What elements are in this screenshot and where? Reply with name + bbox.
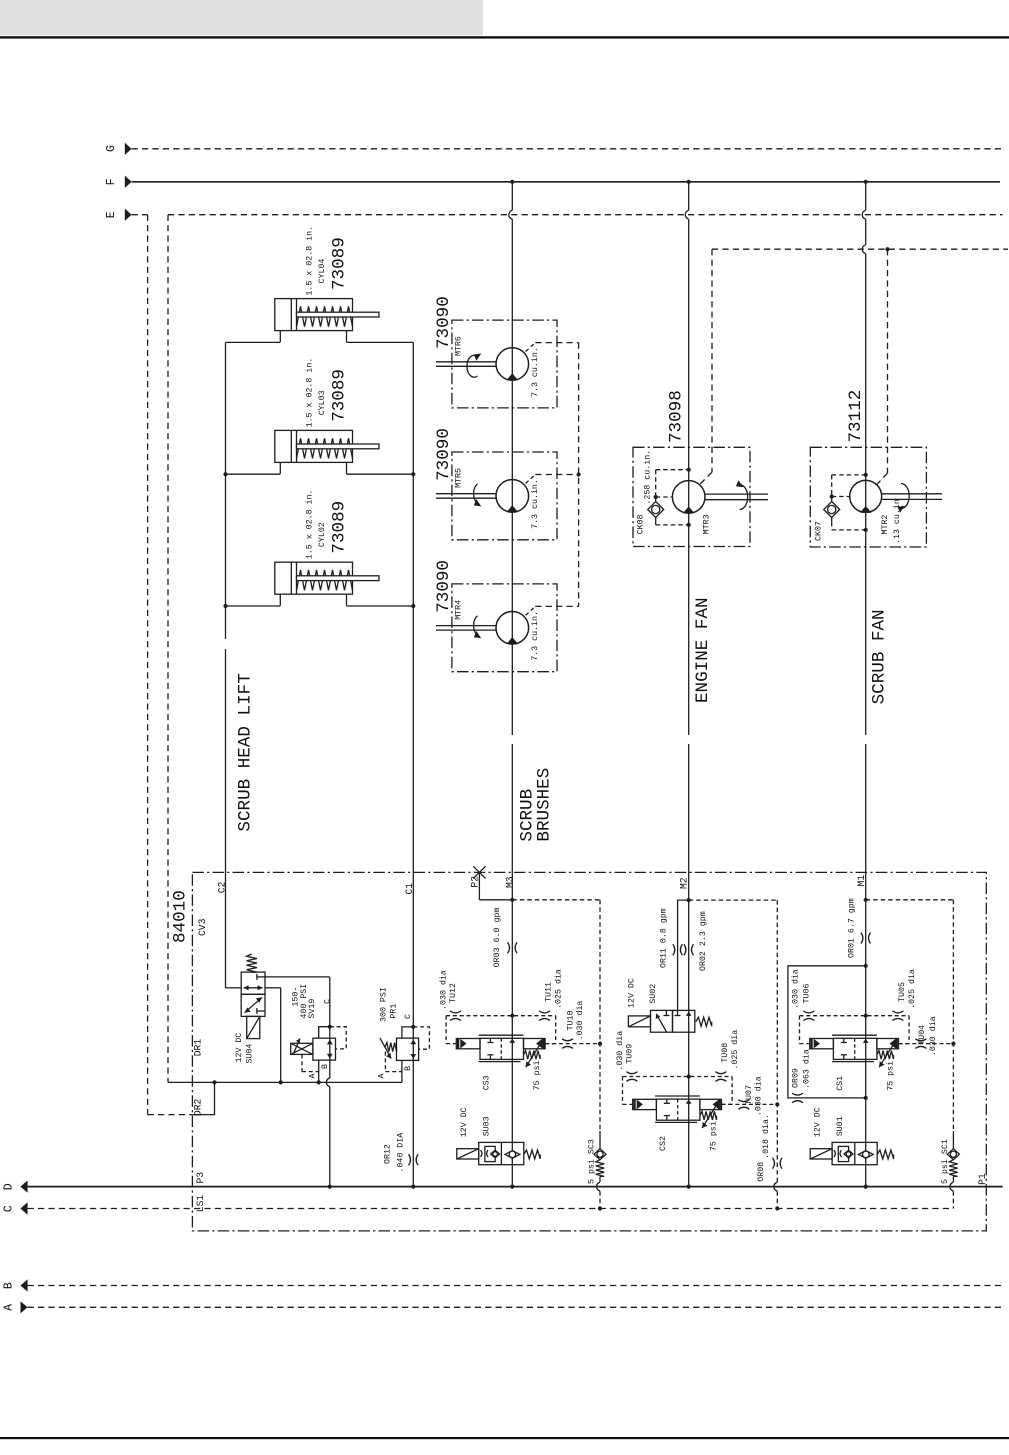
orifice OR02 bbox=[684, 944, 694, 955]
node A bbox=[3, 1301, 28, 1313]
svg-text:.030 dia: .030 dia bbox=[791, 969, 801, 1009]
svg-text:SU04: SU04 bbox=[246, 1044, 255, 1064]
cylinder CYL03 73089 bbox=[275, 430, 379, 474]
svg-text:.030 dia: .030 dia bbox=[615, 1031, 625, 1071]
svg-text:SCRUB HEAD LIFT: SCRUB HEAD LIFT bbox=[235, 673, 255, 831]
svg-text:M1: M1 bbox=[856, 875, 867, 887]
svg-text:12V DC: 12V DC bbox=[235, 1033, 244, 1063]
label TU09 bbox=[615, 1031, 635, 1071]
label OR08 bbox=[757, 1114, 771, 1182]
port label DR2 bbox=[192, 1098, 203, 1116]
svg-text:7.3 cu.in.: 7.3 cu.in. bbox=[530, 347, 540, 397]
label MTR4 bbox=[434, 560, 540, 661]
wire M1 drain branch dashed bbox=[866, 900, 956, 1131]
node D (pressure supply P3) bbox=[3, 1180, 28, 1192]
svg-text:CYL04: CYL04 bbox=[318, 259, 327, 284]
svg-text:OR02 2.3 gpm: OR02 2.3 gpm bbox=[699, 911, 708, 971]
motor MTR2 73112 bbox=[810, 447, 942, 547]
label OR09 bbox=[792, 1049, 812, 1089]
svg-text:OR03 6.0 gpm: OR03 6.0 gpm bbox=[493, 908, 502, 968]
header rule bbox=[0, 36, 1009, 38]
svg-text:D: D bbox=[3, 1183, 16, 1190]
wire M1 scrub fan line bbox=[862, 182, 865, 1187]
label PR1 ports bbox=[377, 1014, 413, 1079]
svg-text:TU07: TU07 bbox=[745, 1085, 754, 1105]
label TU10 bbox=[566, 1001, 585, 1041]
label SCRUB HEAD LIFT bbox=[235, 673, 255, 831]
motor MTR6 73090 bbox=[436, 320, 557, 408]
solenoid valve SU03 bbox=[457, 1142, 540, 1164]
svg-text:7.3 cu.in.: 7.3 cu.in. bbox=[530, 611, 540, 661]
svg-text:PR1: PR1 bbox=[390, 1004, 399, 1019]
wire D P3 supply bus bbox=[28, 1185, 1003, 1189]
label SV19 bbox=[292, 984, 317, 1019]
svg-text:MTR4: MTR4 bbox=[455, 600, 464, 620]
label ENGINE FAN bbox=[693, 597, 713, 703]
svg-text:.030 dia: .030 dia bbox=[439, 970, 449, 1010]
svg-text:12V DC: 12V DC bbox=[814, 1107, 823, 1137]
wire C LS1 bus dashed bbox=[28, 1208, 954, 1210]
label TU04 bbox=[918, 1016, 938, 1056]
wire cylinder cross line top bbox=[226, 341, 414, 343]
junction F to M2 bbox=[687, 180, 691, 184]
label SC3 bbox=[587, 1139, 597, 1184]
svg-text:5 psi SC3: 5 psi SC3 bbox=[587, 1139, 597, 1184]
screen SC1 bbox=[947, 1131, 959, 1209]
label TU12 bbox=[439, 970, 459, 1010]
svg-text:P3: P3 bbox=[195, 1172, 206, 1184]
svg-text:.030 dia: .030 dia bbox=[754, 1076, 764, 1116]
svg-text:DR1: DR1 bbox=[192, 1039, 203, 1057]
svg-text:73089: 73089 bbox=[330, 237, 350, 290]
svg-text:7.3 cu.in.: 7.3 cu.in. bbox=[530, 479, 540, 529]
motor MTR3 73098 bbox=[633, 447, 768, 546]
svg-text:C2: C2 bbox=[216, 881, 227, 893]
port label M2 bbox=[679, 877, 690, 889]
port label P3 bbox=[195, 1172, 206, 1184]
label CS1 bbox=[836, 1061, 896, 1091]
port label DR1 bbox=[192, 1039, 203, 1057]
svg-text:73089: 73089 bbox=[330, 369, 350, 422]
svg-text:SU02: SU02 bbox=[649, 984, 658, 1004]
wire A dashed bbox=[28, 1306, 1003, 1308]
svg-text:CK08: CK08 bbox=[637, 514, 646, 534]
svg-text:OR11 0.8 gpm: OR11 0.8 gpm bbox=[660, 908, 669, 968]
orifice OR09 bypass loop bbox=[788, 964, 868, 1103]
svg-text:MTR2: MTR2 bbox=[881, 515, 890, 535]
label TU11 bbox=[545, 969, 564, 1009]
label OR11 OR02 bbox=[660, 908, 709, 971]
svg-text:OR09: OR09 bbox=[792, 1068, 801, 1088]
svg-text:73090: 73090 bbox=[434, 560, 454, 613]
wire brush motor drain manifold bbox=[577, 343, 581, 607]
wire F solid line bbox=[132, 181, 1000, 183]
svg-text:CS2: CS2 bbox=[659, 1136, 668, 1151]
svg-text:1.5 x 02.8 in.: 1.5 x 02.8 in. bbox=[304, 226, 314, 296]
svg-text:OR01 6.7 gpm: OR01 6.7 gpm bbox=[848, 898, 857, 958]
orifice OR03 bbox=[508, 942, 518, 953]
flow control valve CS1 bbox=[800, 1011, 954, 1067]
junction OR08 to LS1 bbox=[775, 1206, 779, 1210]
label SU01 bbox=[814, 1107, 845, 1137]
check valve CK08 bbox=[648, 468, 691, 527]
solenoid valve SU02 bbox=[628, 1010, 711, 1032]
svg-text:.025 dia: .025 dia bbox=[554, 969, 564, 1009]
svg-text:TU08: TU08 bbox=[721, 1043, 730, 1063]
manifold 84010 boundary bbox=[192, 872, 986, 1231]
wire C2 to SU04 bbox=[226, 987, 242, 989]
svg-text:TU12: TU12 bbox=[449, 983, 458, 1003]
svg-text:BRUSHES: BRUSHES bbox=[534, 768, 554, 842]
svg-text:TU04: TU04 bbox=[918, 1025, 927, 1045]
label CS3 bbox=[483, 1060, 543, 1090]
svg-text:SU01: SU01 bbox=[836, 1116, 845, 1136]
svg-text:TU10: TU10 bbox=[566, 1011, 575, 1031]
svg-text:.040 DIA: .040 DIA bbox=[396, 1133, 405, 1173]
svg-text:CS3: CS3 bbox=[483, 1075, 492, 1090]
relief valve PR1 bbox=[380, 1025, 430, 1083]
wire cylinder right bus C1 bbox=[412, 342, 414, 1186]
svg-text:TU06: TU06 bbox=[803, 984, 812, 1004]
svg-text:5 psi SC1: 5 psi SC1 bbox=[940, 1139, 950, 1184]
port label P1 bbox=[977, 1173, 988, 1185]
svg-text:LS1: LS1 bbox=[195, 1195, 206, 1213]
cylinder CYL02 73089 bbox=[275, 562, 379, 606]
label SU02 bbox=[628, 978, 658, 1008]
svg-text:MTR6: MTR6 bbox=[455, 336, 464, 356]
wire M2 drain branch dashed bbox=[689, 900, 780, 1208]
wire B dashed bbox=[28, 1285, 1003, 1287]
svg-text:G: G bbox=[105, 145, 118, 152]
svg-text:B: B bbox=[404, 1066, 413, 1071]
port label C2 bbox=[216, 881, 227, 893]
wire M2 engine fan line bbox=[685, 182, 688, 1187]
svg-text:CYL03: CYL03 bbox=[318, 390, 327, 415]
label TU05 bbox=[898, 969, 917, 1009]
svg-text:TU05: TU05 bbox=[898, 982, 907, 1002]
label TU07 bbox=[745, 1076, 764, 1116]
wire drain DR2 dashed from E bbox=[148, 215, 193, 1115]
svg-text:B: B bbox=[321, 1064, 330, 1069]
node E (drain header) bbox=[105, 209, 132, 221]
port P2 plug bbox=[473, 866, 512, 900]
junction F to M3 bbox=[510, 180, 514, 184]
wire MTR6 case drain bbox=[526, 343, 579, 352]
svg-text:MTR3: MTR3 bbox=[703, 514, 712, 534]
svg-text:12V DC: 12V DC bbox=[460, 1107, 469, 1137]
svg-text:CYL02: CYL02 bbox=[318, 522, 327, 547]
orifice OR11 bbox=[673, 944, 683, 955]
svg-text:B: B bbox=[3, 1282, 16, 1289]
svg-text:73112: 73112 bbox=[846, 390, 866, 443]
label OR01 bbox=[848, 898, 857, 958]
label SCRUB FAN bbox=[869, 609, 889, 704]
wire G dashed line bbox=[132, 148, 1004, 150]
label SCRUB BRUSHES bbox=[518, 768, 555, 842]
svg-text:E: E bbox=[105, 211, 118, 218]
port label M3 bbox=[504, 876, 515, 888]
svg-text:CS1: CS1 bbox=[836, 1076, 845, 1091]
svg-text:84010: 84010 bbox=[171, 890, 191, 943]
label CS2 bbox=[659, 1121, 719, 1151]
wire M3 drain branch dashed bbox=[512, 900, 602, 1131]
proportional valve SV19 bbox=[291, 1025, 347, 1083]
node M3 branch bbox=[510, 898, 514, 902]
wire fan case drain header bbox=[712, 247, 1008, 251]
junction F to M1 bbox=[864, 180, 868, 184]
svg-text:M2: M2 bbox=[679, 877, 690, 889]
svg-text:C: C bbox=[3, 1205, 16, 1212]
svg-text:.13 cu.in: .13 cu.in bbox=[892, 499, 902, 544]
wire MTR5 case drain bbox=[526, 475, 579, 484]
label OR12 bbox=[384, 1133, 406, 1173]
svg-text:1.5 x 02.8 in.: 1.5 x 02.8 in. bbox=[304, 489, 314, 559]
node M2 branch bbox=[687, 898, 691, 902]
svg-text:.018 dia.: .018 dia. bbox=[761, 1114, 771, 1159]
svg-text:SV19: SV19 bbox=[308, 999, 317, 1019]
wire MTR2 case drain bbox=[877, 249, 887, 484]
check valve CK07 bbox=[824, 473, 868, 532]
svg-text:MTR5: MTR5 bbox=[455, 468, 464, 488]
header gray bar bbox=[0, 0, 483, 35]
svg-text:.258 cu.in.: .258 cu.in. bbox=[643, 450, 653, 505]
svg-text:C: C bbox=[404, 1014, 413, 1019]
svg-text:TU09: TU09 bbox=[626, 1044, 635, 1064]
svg-text:.025 dia: .025 dia bbox=[730, 1030, 740, 1070]
orifice OR08 bbox=[773, 1158, 783, 1169]
svg-text:75 psi: 75 psi bbox=[886, 1061, 896, 1091]
svg-text:TU11: TU11 bbox=[545, 982, 554, 1002]
label CYL03 size bbox=[304, 358, 349, 428]
wire SU04 to A bus bbox=[265, 988, 281, 1083]
wire SU04 to C passage bbox=[265, 977, 330, 1187]
solenoid valve SU01 bbox=[810, 1142, 893, 1164]
svg-text:OR12: OR12 bbox=[384, 1144, 393, 1164]
svg-text:ENGINE FAN: ENGINE FAN bbox=[693, 597, 713, 703]
node F (pressure header) bbox=[105, 176, 132, 188]
flow control valve CS3 bbox=[446, 1011, 600, 1067]
label OR03 bbox=[493, 908, 502, 968]
svg-text:DR2: DR2 bbox=[192, 1098, 203, 1116]
node M1 branch bbox=[864, 898, 868, 902]
svg-text:75 psi: 75 psi bbox=[709, 1121, 719, 1151]
orifice OR12 bbox=[409, 1154, 419, 1165]
wire DR2 link bbox=[192, 1082, 214, 1114]
label 84010 CV3 bbox=[171, 890, 209, 943]
svg-text:SU03: SU03 bbox=[483, 1116, 492, 1136]
cylinder CYL04 73089 bbox=[275, 299, 379, 343]
orifice OR01 bbox=[861, 933, 871, 944]
label SC1 bbox=[940, 1139, 950, 1184]
svg-text:75 psi: 75 psi bbox=[532, 1060, 542, 1090]
svg-text:73090: 73090 bbox=[434, 296, 454, 349]
label TU08 bbox=[721, 1030, 740, 1070]
svg-text:A: A bbox=[377, 1074, 386, 1079]
screen SC3 bbox=[594, 1131, 606, 1209]
svg-text:CK07: CK07 bbox=[814, 521, 823, 541]
svg-text:300 PSI: 300 PSI bbox=[379, 987, 388, 1022]
svg-text:73090: 73090 bbox=[434, 428, 454, 481]
svg-text:73089: 73089 bbox=[330, 501, 350, 554]
wire M3 scrub brush line bbox=[509, 182, 512, 1187]
wire cylinder cross line middle bbox=[223, 472, 415, 476]
svg-text:.063 dia: .063 dia bbox=[802, 1049, 812, 1089]
wire OR11 bypass branch bbox=[678, 900, 689, 1010]
label MTR3 bbox=[637, 390, 712, 534]
wire E dashed line bbox=[132, 214, 1003, 216]
svg-text:12V DC: 12V DC bbox=[628, 978, 637, 1008]
svg-text:SCRUB FAN: SCRUB FAN bbox=[869, 609, 889, 704]
node C (load sense LS1) bbox=[3, 1202, 28, 1214]
label CYL02 size bbox=[304, 489, 349, 559]
svg-text:OR08: OR08 bbox=[757, 1162, 766, 1182]
label PR1 bbox=[379, 987, 398, 1022]
svg-text:73098: 73098 bbox=[666, 390, 686, 443]
wire MTR4 case drain bbox=[526, 606, 579, 615]
node B bbox=[3, 1279, 28, 1291]
svg-text:1.5 x 02.8 in.: 1.5 x 02.8 in. bbox=[304, 358, 314, 428]
svg-text:A: A bbox=[309, 1074, 318, 1079]
wire drain DR1 dashed from E bbox=[167, 215, 169, 1083]
solenoid valve SU04 bbox=[241, 954, 265, 1039]
svg-text:A: A bbox=[3, 1304, 16, 1311]
svg-text:.030 dia: .030 dia bbox=[575, 1001, 585, 1041]
port label LS1 bbox=[195, 1195, 206, 1213]
svg-text:C: C bbox=[324, 999, 333, 1004]
port label C1 bbox=[404, 883, 415, 895]
port label P2 bbox=[470, 876, 481, 888]
svg-text:P1: P1 bbox=[977, 1173, 988, 1185]
label SU04 bbox=[235, 1033, 255, 1064]
svg-text:C1: C1 bbox=[404, 883, 415, 895]
wire MTR3 case drain bbox=[700, 249, 712, 484]
svg-text:.030 dia: .030 dia bbox=[928, 1016, 938, 1056]
wire tank bus bbox=[168, 1080, 402, 1084]
svg-text:M3: M3 bbox=[504, 876, 515, 888]
motor MTR5 73090 bbox=[436, 452, 557, 540]
label TU06 bbox=[791, 969, 812, 1009]
label SV19 ports bbox=[309, 999, 333, 1079]
label MTR2 bbox=[814, 390, 902, 544]
flow control valve CS2 bbox=[623, 1072, 778, 1128]
wire cylinder left bus C2 bbox=[225, 342, 227, 987]
port label M1 bbox=[856, 875, 867, 887]
label SU03 bbox=[460, 1107, 491, 1137]
junction SC3 to LS1 bbox=[598, 1206, 602, 1210]
svg-text:F: F bbox=[105, 178, 118, 185]
svg-text:.025 dia: .025 dia bbox=[907, 969, 917, 1009]
wire cylinder cross line bottom bbox=[223, 604, 415, 608]
label MTR6 bbox=[434, 296, 540, 397]
footer rule bbox=[0, 1437, 1009, 1439]
label CYL04 size bbox=[304, 226, 349, 296]
motor MTR4 73090 bbox=[436, 584, 557, 672]
label MTR5 bbox=[434, 428, 540, 529]
svg-text:CV3: CV3 bbox=[197, 918, 208, 936]
node G (tank return header) bbox=[105, 143, 132, 155]
